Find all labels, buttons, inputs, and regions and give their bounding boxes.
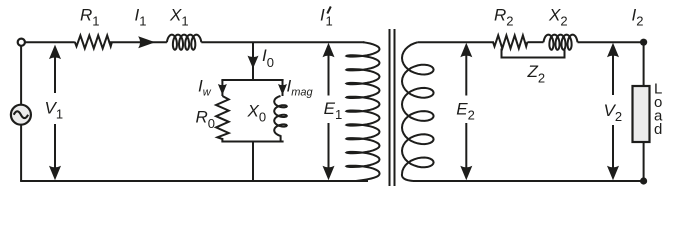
svg-text:d: d	[654, 121, 662, 138]
wire shunt left lower	[221, 138, 223, 142]
svg-text:I2: I2	[632, 5, 644, 28]
svg-text:Imag: Imag	[287, 76, 314, 98]
wire shunt left upper	[221, 80, 223, 96]
wire shunt top bar	[221, 79, 283, 81]
svg-text:R1: R1	[80, 5, 100, 28]
winding secondary	[402, 42, 434, 181]
arrow V1 shaft upper	[54, 47, 56, 93]
svg-text:V2: V2	[604, 101, 623, 124]
arrow E2 shaft lower	[465, 123, 467, 178]
arrow I1	[138, 36, 155, 48]
svg-text:I0: I0	[262, 46, 274, 70]
wire top rail seg2	[108, 41, 166, 43]
arrow E1 shaft upper	[328, 46, 330, 96]
inductor X1	[167, 35, 201, 50]
svg-text:I1: I1	[135, 5, 147, 28]
resistor R1	[75, 35, 112, 48]
svg-text:X0: X0	[247, 102, 267, 125]
arrow E2 shaft upper	[465, 46, 467, 96]
load L1 box	[633, 86, 650, 142]
core line left	[389, 29, 391, 186]
wire top rail seg3	[201, 41, 364, 43]
resistor R0	[216, 96, 229, 139]
wire shunt stem lower	[252, 142, 254, 182]
arrow V2 up head	[607, 43, 619, 58]
arrow V1 shaft lower	[54, 124, 56, 178]
wire top rail secondary seg2	[528, 41, 544, 43]
arrow V1 up head	[49, 45, 61, 60]
terminal T1	[18, 39, 25, 46]
wire I0 stem	[252, 42, 254, 80]
arrow V2 shaft lower	[612, 125, 614, 178]
inductor X0	[274, 96, 287, 136]
wire left vertical upper	[20, 46, 22, 105]
svg-text:X2: X2	[548, 5, 568, 28]
source V1 AC	[11, 105, 31, 125]
svg-text:Z2: Z2	[527, 62, 546, 85]
wire top rail seg1	[25, 41, 75, 43]
svg-text:R2: R2	[494, 5, 514, 28]
resistor R2	[493, 35, 527, 48]
arrow E2 down head	[460, 166, 472, 181]
svg-text:I: I	[320, 5, 325, 24]
inductor X2	[544, 35, 578, 50]
wire load bottom	[643, 142, 645, 181]
arrow V2 shaft upper	[612, 46, 614, 95]
node top junction	[640, 39, 647, 46]
arrow V2 down head	[607, 166, 619, 181]
node bottom junction	[640, 177, 647, 184]
svg-text:X1: X1	[169, 5, 189, 28]
wire shunt right upper	[282, 80, 284, 96]
arrow V1 down head	[49, 166, 61, 181]
svg-text:R0: R0	[196, 108, 216, 131]
bracket Z2	[502, 49, 565, 58]
arrow E2 up head	[460, 43, 472, 58]
wire load top	[643, 42, 645, 86]
arrow E1 shaft lower	[328, 123, 330, 178]
svg-text:V1: V1	[45, 99, 64, 122]
wire top rail secondary seg3	[578, 41, 644, 43]
arrow I0	[248, 56, 259, 69]
svg-text:1: 1	[326, 14, 333, 29]
wire left vertical lower	[20, 125, 22, 182]
wire bottom rail primary	[20, 180, 368, 182]
svg-text:E1: E1	[324, 99, 343, 122]
wire bottom rail secondary	[413, 180, 644, 182]
winding primary	[347, 42, 380, 181]
wire shunt bottom bar	[221, 141, 283, 143]
svg-text:E2: E2	[456, 99, 475, 122]
svg-text:Iw: Iw	[198, 76, 212, 98]
arrow Iw	[218, 84, 227, 95]
wire top rail secondary seg1	[418, 41, 494, 43]
core line right	[394, 29, 396, 186]
wire shunt right lower	[280, 135, 282, 141]
arrow E1 up head	[323, 43, 335, 58]
arrow E1 down head	[323, 166, 335, 181]
arrow Imag	[278, 84, 287, 95]
